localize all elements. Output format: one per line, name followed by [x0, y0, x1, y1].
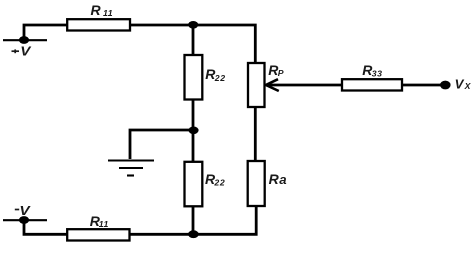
svg-text:22: 22	[214, 73, 226, 83]
svg-text:11: 11	[103, 8, 113, 18]
svg-text:X: X	[464, 81, 472, 91]
svg-text:11: 11	[99, 219, 109, 229]
svg-text:a: a	[279, 172, 286, 187]
svg-text:P: P	[278, 68, 284, 78]
svg-text:R: R	[269, 171, 280, 187]
svg-text:22: 22	[213, 178, 225, 188]
svg-text:V: V	[19, 204, 31, 219]
svg-text:R: R	[91, 2, 102, 18]
svg-text:33: 33	[372, 68, 383, 78]
svg-text:V: V	[20, 44, 32, 59]
svg-text:V: V	[455, 76, 465, 91]
